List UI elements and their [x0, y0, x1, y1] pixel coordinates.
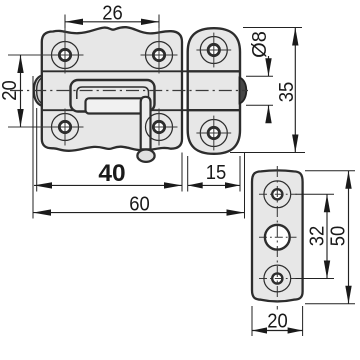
dim diameter 8 lower leader: [268, 105, 270, 122]
keeper band bottom edge: [188, 109, 240, 111]
dim 40 ext line second left: [36, 108, 38, 192]
dim 20 left dimension line: [20, 55, 22, 127]
latch plate P1: [42, 27, 182, 151]
keeper band top edge: [188, 70, 240, 72]
dim 60 ext line right bolt tip: [244, 152, 246, 219]
dim 35 line: [294, 28, 296, 153]
dim 26 arrow right: [141, 19, 159, 25]
handle rod vertical: [141, 97, 151, 150]
dim 35 arrow down: [292, 135, 298, 153]
dim 20 left arrow down: [17, 109, 23, 127]
dim 32 arrow down: [324, 261, 330, 279]
dim diameter 8 upper arrow down: [265, 58, 271, 76]
dim diameter 8 ext line top: [246, 75, 273, 77]
dim 26 extension line left: [64, 15, 66, 29]
svg-text:26: 26: [102, 2, 123, 24]
dim 50 arrow up: [345, 171, 351, 189]
dim 20 bottom arrow left: [252, 327, 267, 333]
svg-text:40: 40: [98, 160, 125, 187]
dim 20 bottom ext line left: [251, 306, 253, 336]
dim 20 bottom arrow right: [288, 327, 303, 333]
centerline horizontal axis: [10, 90, 248, 92]
dim 40 line: [34, 184, 182, 186]
dim 35 arrow up: [292, 28, 298, 46]
dim 50 line: [348, 171, 350, 304]
svg-text:Ø8: Ø8: [249, 31, 271, 58]
svg-text:15: 15: [206, 162, 227, 184]
plate P3 hole T1 centerline horizontal: [259, 193, 297, 195]
keeper plate P2 stadium: [188, 28, 240, 154]
dim 20 bottom ext line right: [302, 306, 304, 336]
dim 15 arrow left: [188, 182, 203, 188]
guide inner top contour: [77, 87, 149, 99]
plate P3 hole T2 ring: [265, 225, 290, 250]
dim 15 ext line left keeper edge: [187, 156, 189, 192]
screw hole H3 bottom-left: [8, 109, 84, 146]
keeper hole K2 bottom: [196, 116, 231, 151]
plate P3 hole white discs: [271, 188, 284, 201]
barrel inner contour arc: [37, 78, 42, 103]
dim 40 arrow left: [34, 182, 52, 188]
dim 60 line: [33, 212, 245, 214]
dim 26 arrow left: [65, 19, 83, 25]
plate P3 hole T3 rings: [264, 265, 291, 292]
dim 26 extension line right: [158, 15, 160, 29]
svg-text:20: 20: [0, 80, 21, 101]
dim diameter 8 ext line bottom: [246, 104, 273, 106]
dim 32 line: [326, 194, 328, 278]
dim 50 ext line bottom: [305, 303, 355, 305]
keeper hole K1 top: [196, 33, 231, 68]
svg-text:32: 32: [307, 226, 329, 247]
svg-text:50: 50: [328, 226, 350, 247]
dim 32 arrow up: [324, 194, 330, 212]
screw hole H2 top-right: [141, 15, 178, 74]
counter plate P3 bottom right: [252, 170, 303, 301]
dim 15 line: [188, 184, 240, 186]
raised band top line across plate and keeper: [42, 70, 240, 72]
barrel end of bolt (left protrusion): [34, 76, 42, 106]
svg-text:60: 60: [129, 194, 150, 216]
dim 40 arrow right: [164, 182, 182, 188]
plate P3 hole T1 rings: [264, 181, 291, 208]
bolt tip protruding right: [240, 78, 247, 104]
dim 60 arrow right: [227, 209, 245, 215]
svg-text:20: 20: [267, 310, 288, 332]
plate P3 hole T3 centerline horizontal: [259, 278, 297, 280]
plate P3 hole T2 centerline horizontal: [259, 236, 297, 238]
handle ball knob: [137, 150, 154, 162]
dim 32 ext line bottom: [296, 278, 335, 280]
dim 50 arrow down: [345, 286, 351, 304]
plate P3 vertical centerline: [276, 166, 278, 310]
dim 35 ext line bottom: [230, 152, 305, 154]
svg-text:35: 35: [276, 82, 298, 103]
screw hole H1 top-left: [8, 15, 84, 74]
dim 20 left arrow up: [17, 55, 23, 73]
dim 60 arrow left: [33, 209, 51, 215]
dim 26 line: [65, 21, 159, 23]
dim 15 arrow right: [225, 182, 240, 188]
dim 15 ext line right keeper edge: [239, 156, 241, 192]
dim 40 ext line right plate edge: [181, 153, 183, 192]
dim 40 ext line far left: [32, 76, 34, 219]
dim 20 bottom line: [252, 330, 303, 332]
bolt guide bracket rounded rect: [71, 80, 155, 112]
dim 32 ext line top: [296, 193, 335, 195]
slider step tab: [86, 98, 145, 113]
screw hole H4 bottom-right: [146, 109, 178, 146]
dim diameter 8 upper leader: [268, 56, 270, 76]
dim diameter 8 lower arrow up: [265, 105, 271, 123]
dim 35 ext line top: [243, 27, 302, 29]
raised band bottom line across plate and keeper: [42, 109, 240, 111]
dim 50 ext line top: [305, 170, 355, 172]
